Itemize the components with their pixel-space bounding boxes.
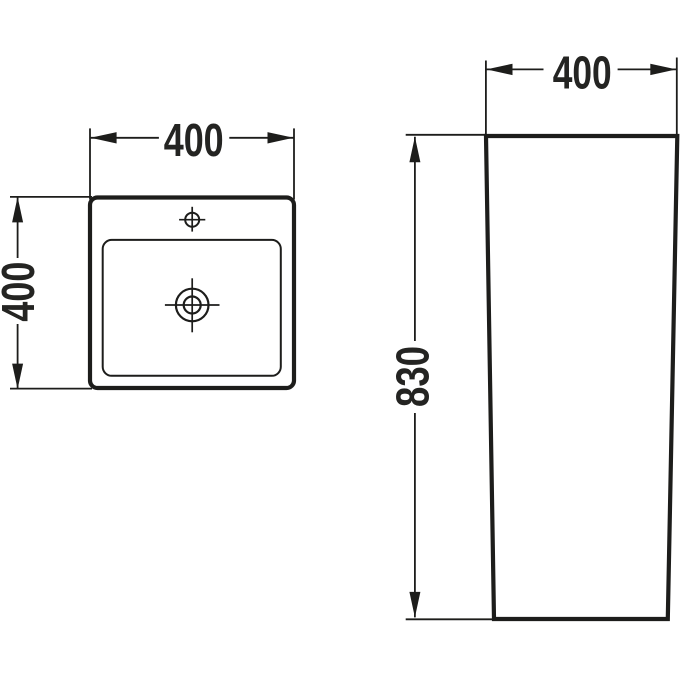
svg-text:400: 400 [553, 47, 612, 99]
svg-text:400: 400 [0, 262, 44, 322]
svg-text:830: 830 [387, 346, 439, 407]
svg-text:400: 400 [164, 114, 224, 166]
